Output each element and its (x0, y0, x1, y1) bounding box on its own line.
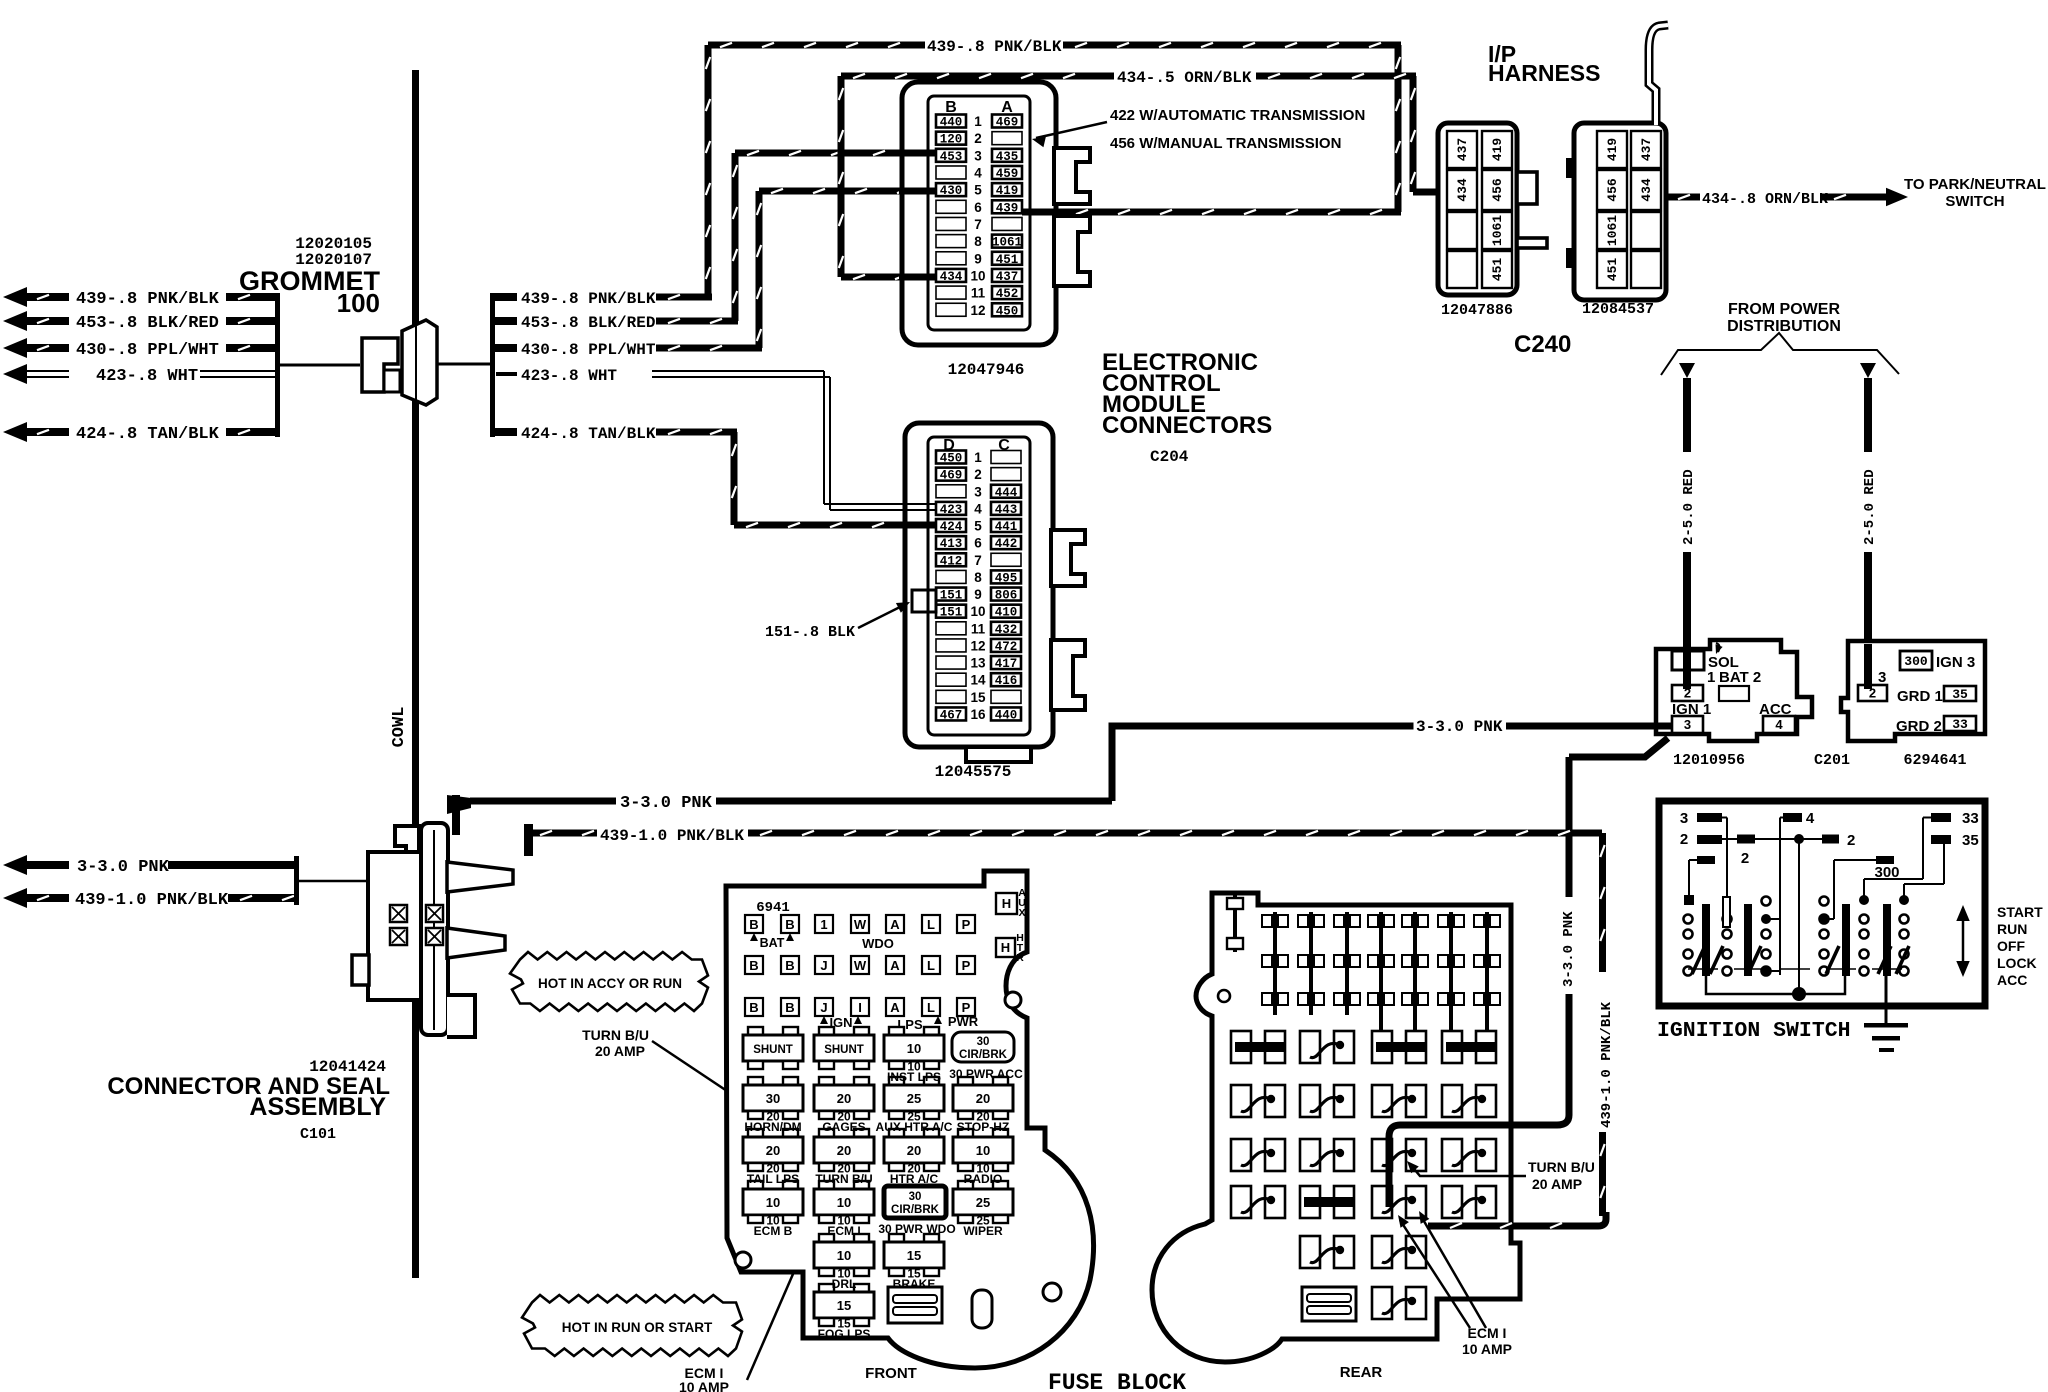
svg-text:B: B (785, 1000, 794, 1015)
svg-text:430-.8 PPL/WHT: 430-.8 PPL/WHT (76, 341, 219, 360)
svg-text:456: 456 (1605, 178, 1620, 202)
svg-text:33: 33 (1962, 810, 1979, 827)
svg-text:440: 440 (940, 116, 963, 130)
svg-text:25: 25 (976, 1195, 990, 1210)
svg-text:1: 1 (974, 114, 982, 129)
svg-text:120: 120 (940, 133, 963, 147)
svg-text:CONNECTORS: CONNECTORS (1102, 412, 1272, 439)
svg-text:1: 1 (820, 917, 827, 932)
svg-text:13: 13 (970, 656, 986, 671)
svg-text:439-.8 PNK/BLK: 439-.8 PNK/BLK (76, 290, 220, 309)
svg-text:12: 12 (970, 303, 985, 318)
svg-text:C240: C240 (1514, 331, 1571, 358)
svg-text:6: 6 (974, 536, 982, 551)
svg-text:6941: 6941 (756, 900, 790, 916)
svg-text:HOT IN RUN OR START: HOT IN RUN OR START (562, 1320, 713, 1335)
svg-text:434: 434 (1455, 178, 1470, 202)
svg-text:WDO: WDO (862, 936, 894, 951)
svg-text:15: 15 (837, 1298, 851, 1313)
svg-text:2: 2 (974, 467, 982, 482)
svg-text:453: 453 (940, 150, 963, 164)
svg-text:FRONT: FRONT (865, 1365, 917, 1382)
svg-text:ASSEMBLY: ASSEMBLY (249, 1093, 386, 1121)
svg-text:TURN B/U: TURN B/U (815, 1172, 872, 1186)
svg-text:I: I (858, 1000, 862, 1015)
svg-text:B: B (785, 917, 794, 932)
svg-text:1061: 1061 (992, 236, 1022, 250)
svg-text:2: 2 (1847, 832, 1855, 849)
svg-text:2: 2 (1741, 850, 1749, 867)
svg-text:451: 451 (996, 253, 1019, 267)
svg-text:469: 469 (940, 469, 963, 483)
svg-text:6294641: 6294641 (1903, 752, 1966, 769)
svg-text:B: B (785, 958, 794, 973)
svg-text:HOT IN ACCY OR RUN: HOT IN ACCY OR RUN (538, 976, 682, 991)
svg-text:3: 3 (1684, 717, 1691, 732)
svg-text:419: 419 (996, 184, 1019, 198)
svg-text:444: 444 (995, 486, 1018, 500)
svg-text:423-.8 WHT: 423-.8 WHT (96, 367, 198, 386)
svg-text:30: 30 (977, 1036, 990, 1048)
svg-text:12: 12 (970, 638, 985, 653)
svg-text:W: W (854, 958, 867, 973)
svg-text:B: B (749, 958, 758, 973)
svg-text:469: 469 (996, 116, 1019, 130)
svg-text:410: 410 (995, 606, 1018, 620)
svg-text:J: J (820, 958, 827, 973)
svg-text:20: 20 (907, 1143, 921, 1158)
svg-text:BAT 2: BAT 2 (1719, 669, 1761, 686)
svg-text:HARNESS: HARNESS (1488, 60, 1600, 86)
svg-text:OFF: OFF (1997, 938, 2025, 954)
svg-text:2-5.0 RED: 2-5.0 RED (1862, 469, 1878, 545)
svg-text:9: 9 (974, 251, 982, 266)
svg-text:422 W/AUTOMATIC TRANSMISSION: 422 W/AUTOMATIC TRANSMISSION (1110, 107, 1365, 124)
svg-text:H: H (1002, 896, 1011, 911)
svg-text:PWR: PWR (948, 1014, 979, 1029)
svg-text:11: 11 (971, 286, 986, 301)
svg-text:FOG LPS: FOG LPS (818, 1327, 871, 1341)
svg-text:35: 35 (1962, 832, 1979, 849)
svg-text:4: 4 (1806, 810, 1815, 827)
svg-text:3: 3 (974, 484, 982, 499)
svg-text:424-.8 TAN/BLK: 424-.8 TAN/BLK (76, 425, 220, 444)
svg-text:FROM POWER: FROM POWER (1728, 301, 1840, 318)
svg-text:STOP-HZ: STOP-HZ (957, 1120, 1009, 1134)
svg-text:9: 9 (974, 587, 982, 602)
svg-text:4: 4 (1775, 717, 1783, 732)
svg-text:416: 416 (995, 674, 1018, 688)
svg-text:IGNITION SWITCH: IGNITION SWITCH (1657, 1019, 1851, 1043)
svg-text:423: 423 (940, 503, 963, 517)
svg-text:WIPER: WIPER (963, 1224, 1003, 1238)
svg-text:806: 806 (995, 589, 1018, 603)
svg-text:TAIL LPS: TAIL LPS (747, 1172, 799, 1186)
svg-text:J: J (820, 1000, 827, 1015)
svg-text:495: 495 (995, 571, 1018, 585)
svg-text:450: 450 (996, 304, 1019, 318)
svg-text:424-.8 TAN/BLK: 424-.8 TAN/BLK (521, 425, 656, 443)
svg-text:100: 100 (337, 288, 380, 318)
svg-text:RADIO: RADIO (964, 1172, 1003, 1186)
svg-text:417: 417 (995, 657, 1018, 671)
svg-text:A: A (890, 917, 900, 932)
svg-text:AUX HTR A/C: AUX HTR A/C (876, 1120, 953, 1134)
svg-text:HORN/DM: HORN/DM (744, 1120, 801, 1134)
svg-text:12047946: 12047946 (948, 361, 1025, 379)
svg-text:11: 11 (971, 621, 986, 636)
svg-text:5: 5 (974, 183, 982, 198)
svg-text:434-.5 ORN/BLK: 434-.5 ORN/BLK (1117, 69, 1252, 87)
svg-text:P: P (962, 917, 971, 932)
svg-text:419: 419 (1490, 138, 1505, 162)
svg-text:SHUNT: SHUNT (753, 1044, 793, 1056)
svg-text:B: B (749, 1000, 758, 1015)
svg-text:30: 30 (909, 1191, 922, 1203)
svg-text:7: 7 (974, 217, 982, 232)
svg-text:10: 10 (766, 1195, 780, 1210)
svg-text:430-.8 PPL/WHT: 430-.8 PPL/WHT (521, 341, 656, 359)
svg-text:TURN B/U: TURN B/U (1528, 1159, 1595, 1175)
svg-text:16: 16 (970, 707, 986, 722)
svg-text:8: 8 (974, 234, 982, 249)
svg-text:14: 14 (970, 673, 986, 688)
svg-text:2-5.0 RED: 2-5.0 RED (1681, 469, 1697, 545)
svg-text:CIR/BRK: CIR/BRK (959, 1049, 1008, 1061)
svg-text:H: H (1001, 940, 1010, 955)
svg-text:450: 450 (940, 452, 963, 466)
svg-text:10: 10 (970, 268, 985, 283)
svg-text:439-1.0 PNK/BLK: 439-1.0 PNK/BLK (75, 891, 229, 910)
svg-text:START: START (1997, 904, 2043, 920)
svg-text:1061: 1061 (1490, 215, 1505, 246)
svg-text:10: 10 (837, 1195, 851, 1210)
svg-text:419: 419 (1605, 138, 1620, 162)
svg-text:430: 430 (940, 184, 963, 198)
svg-text:1061: 1061 (1605, 215, 1620, 246)
svg-text:15: 15 (970, 690, 986, 705)
svg-text:A: A (890, 958, 900, 973)
svg-text:439-1.0 PNK/BLK: 439-1.0 PNK/BLK (1599, 1001, 1615, 1128)
svg-text:439-.8 PNK/BLK: 439-.8 PNK/BLK (927, 38, 1062, 56)
svg-text:439: 439 (996, 201, 1019, 215)
svg-text:434-.8 ORN/BLK: 434-.8 ORN/BLK (1702, 191, 1828, 208)
svg-text:4: 4 (974, 165, 982, 180)
svg-text:10: 10 (837, 1248, 851, 1263)
svg-text:SWITCH: SWITCH (1945, 193, 2004, 210)
svg-text:3-3.0 PNK: 3-3.0 PNK (1416, 718, 1503, 736)
svg-text:151: 151 (940, 589, 963, 603)
svg-text:GAGES: GAGES (822, 1120, 865, 1134)
svg-text:440: 440 (995, 708, 1018, 722)
svg-text:437: 437 (1639, 138, 1654, 161)
svg-text:15: 15 (907, 1248, 921, 1263)
svg-text:DRL: DRL (832, 1277, 857, 1291)
svg-text:COWL: COWL (390, 707, 409, 748)
svg-text:IGN 3: IGN 3 (1936, 654, 1975, 671)
svg-text:10: 10 (970, 604, 985, 619)
svg-text:7: 7 (974, 553, 982, 568)
svg-text:456 W/MANUAL TRANSMISSION: 456 W/MANUAL TRANSMISSION (1110, 135, 1341, 152)
svg-text:ECM I: ECM I (827, 1224, 860, 1238)
svg-text:ECM B: ECM B (754, 1224, 793, 1238)
svg-text:10: 10 (907, 1041, 921, 1056)
svg-text:20: 20 (837, 1143, 851, 1158)
svg-text:300: 300 (1904, 654, 1928, 669)
svg-text:20: 20 (766, 1143, 780, 1158)
svg-text:441: 441 (995, 520, 1018, 534)
svg-text:P: P (962, 958, 971, 973)
svg-text:C204: C204 (1150, 448, 1189, 466)
svg-text:R: R (1016, 952, 1024, 964)
svg-text:1: 1 (1707, 669, 1715, 686)
svg-text:442: 442 (995, 537, 1018, 551)
svg-text:1: 1 (974, 450, 982, 465)
svg-text:X: X (1018, 907, 1025, 919)
svg-text:35: 35 (1952, 687, 1968, 702)
svg-text:472: 472 (995, 640, 1018, 654)
svg-text:20 AMP: 20 AMP (595, 1043, 645, 1059)
svg-text:C201: C201 (1814, 752, 1850, 769)
svg-text:FUSE BLOCK: FUSE BLOCK (1048, 1370, 1186, 1392)
svg-text:CIR/BRK: CIR/BRK (891, 1204, 940, 1216)
svg-text:456: 456 (1490, 178, 1505, 202)
svg-text:451: 451 (1605, 258, 1620, 282)
svg-text:GRD 2: GRD 2 (1896, 718, 1942, 735)
svg-text:W: W (854, 917, 867, 932)
svg-text:413: 413 (940, 537, 963, 551)
svg-text:RUN: RUN (1997, 921, 2027, 937)
svg-text:33: 33 (1952, 717, 1968, 732)
svg-text:REAR: REAR (1340, 1364, 1383, 1381)
svg-text:3-3.0 PNK: 3-3.0 PNK (620, 794, 713, 813)
svg-text:BRAKE: BRAKE (893, 1277, 936, 1291)
svg-text:3: 3 (974, 148, 982, 163)
svg-text:LOCK: LOCK (1997, 955, 2037, 971)
svg-text:20 AMP: 20 AMP (1532, 1176, 1582, 1192)
svg-text:453-.8 BLK/RED: 453-.8 BLK/RED (521, 314, 655, 332)
svg-text:HTR A/C: HTR A/C (890, 1172, 939, 1186)
svg-text:439-.8 PNK/BLK: 439-.8 PNK/BLK (521, 290, 656, 308)
svg-text:443: 443 (995, 503, 1018, 517)
svg-text:3-3.0 PNK: 3-3.0 PNK (1561, 911, 1577, 987)
svg-text:L: L (927, 958, 935, 973)
svg-text:3: 3 (1680, 810, 1688, 827)
svg-text:BAT: BAT (760, 936, 785, 950)
svg-text:TO PARK/NEUTRAL: TO PARK/NEUTRAL (1904, 176, 2046, 193)
svg-text:5: 5 (974, 519, 982, 534)
svg-text:8: 8 (974, 570, 982, 585)
svg-text:423-.8 WHT: 423-.8 WHT (521, 367, 617, 385)
svg-text:6: 6 (974, 200, 982, 215)
svg-text:TURN B/U: TURN B/U (582, 1027, 649, 1043)
svg-text:452: 452 (996, 287, 1019, 301)
svg-text:12045575: 12045575 (935, 763, 1012, 781)
svg-text:20: 20 (837, 1091, 851, 1106)
svg-text:467: 467 (940, 708, 963, 722)
svg-text:SHUNT: SHUNT (824, 1044, 864, 1056)
svg-text:437: 437 (1455, 138, 1470, 161)
svg-text:412: 412 (940, 554, 963, 568)
svg-text:10 AMP: 10 AMP (679, 1379, 729, 1392)
svg-text:451: 451 (1490, 258, 1505, 282)
svg-text:30: 30 (766, 1091, 780, 1106)
svg-text:434: 434 (940, 270, 963, 284)
svg-text:A: A (890, 1000, 900, 1015)
svg-text:435: 435 (996, 150, 1019, 164)
svg-text:GRD 1: GRD 1 (1897, 688, 1943, 705)
svg-text:10 AMP: 10 AMP (1462, 1341, 1512, 1357)
svg-text:439-1.0 PNK/BLK: 439-1.0 PNK/BLK (600, 827, 744, 845)
svg-text:459: 459 (996, 167, 1019, 181)
svg-text:DISTRIBUTION: DISTRIBUTION (1727, 318, 1841, 335)
svg-text:432: 432 (995, 623, 1018, 637)
svg-text:12047886: 12047886 (1441, 302, 1513, 319)
svg-text:ACC: ACC (1997, 972, 2027, 988)
svg-text:10: 10 (976, 1143, 990, 1158)
svg-text:151: 151 (940, 606, 963, 620)
svg-text:12010956: 12010956 (1673, 752, 1745, 769)
svg-text:3-3.0 PNK: 3-3.0 PNK (77, 858, 170, 877)
svg-text:424: 424 (940, 520, 963, 534)
svg-text:B: B (749, 917, 758, 932)
svg-text:L: L (927, 917, 935, 932)
svg-text:L: L (927, 1000, 935, 1015)
svg-text:12084537: 12084537 (1582, 301, 1654, 318)
svg-text:INST LPS: INST LPS (887, 1070, 941, 1084)
svg-text:151-.8 BLK: 151-.8 BLK (765, 624, 855, 641)
svg-text:20: 20 (976, 1091, 990, 1106)
svg-text:4: 4 (974, 501, 982, 516)
svg-text:453-.8 BLK/RED: 453-.8 BLK/RED (76, 314, 219, 333)
svg-text:434: 434 (1639, 178, 1654, 202)
svg-text:3: 3 (1878, 669, 1886, 686)
svg-text:C101: C101 (300, 1126, 336, 1143)
svg-text:2: 2 (974, 131, 982, 146)
svg-text:25: 25 (907, 1091, 921, 1106)
svg-text:437: 437 (996, 270, 1019, 284)
svg-text:P: P (962, 1000, 971, 1015)
svg-text:2: 2 (1680, 831, 1688, 848)
